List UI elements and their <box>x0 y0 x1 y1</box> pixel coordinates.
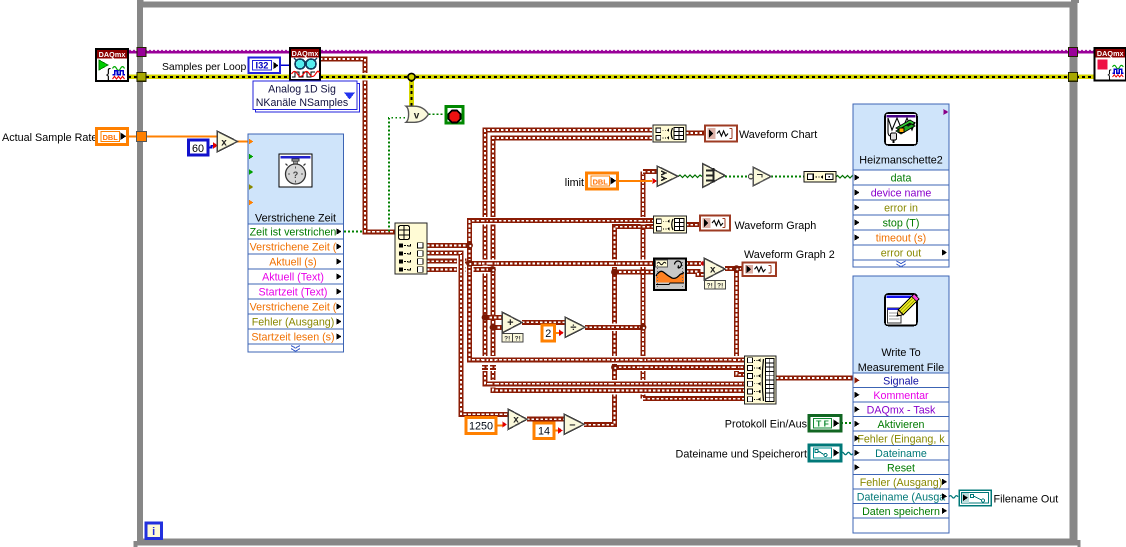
constant: 2 <box>542 325 555 341</box>
iteration terminal i <box>146 523 162 539</box>
tunnel: task (purple) right border <box>1069 48 1078 57</box>
svg-text:Analog 1D Sig: Analog 1D Sig <box>268 84 336 96</box>
wire: 14 to subtract (orange) <box>554 430 559 432</box>
compare badge under multiply-wg2 <box>705 281 726 290</box>
svg-text:Protokoll Ein/Aus: Protokoll Ein/Aus <box>725 419 808 431</box>
not gate <box>748 167 771 186</box>
constant: 60 <box>189 140 209 155</box>
divide node <box>565 317 585 338</box>
split signals node <box>395 223 427 274</box>
wire: out1 branch up to convert node2 <box>470 221 655 246</box>
control: I32 constant <box>249 58 281 74</box>
svg-text:x: x <box>513 415 519 426</box>
wire: split out3 <box>427 259 467 264</box>
svg-text:T F: T F <box>816 419 829 429</box>
svg-text:NKanäle NSamples: NKanäle NSamples <box>256 97 348 109</box>
wire: Actual Sample Rate (orange DBL) <box>128 136 217 138</box>
svg-text:Reset: Reset <box>887 462 915 474</box>
wire: multiply out to WG2 indicator <box>725 266 743 271</box>
svg-text:Signale: Signale <box>883 375 919 387</box>
express VI: Write To Measurement File <box>853 276 949 533</box>
svg-text:stop (T): stop (T) <box>883 218 920 230</box>
svg-text:data: data <box>891 173 912 185</box>
svg-text:Aktuell (Text): Aktuell (Text) <box>262 272 324 284</box>
multiply-wg2 node <box>704 258 725 280</box>
svg-text:error in: error in <box>884 203 918 215</box>
wire: 60 to multiply (blue) <box>208 146 214 148</box>
svg-text:Verstrichene Zeit (: Verstrichene Zeit ( <box>250 242 337 254</box>
coercion dot multiply in1 <box>701 261 705 265</box>
svg-text:Kommentar: Kommentar <box>873 390 929 402</box>
svg-text:DAQmx: DAQmx <box>99 50 126 59</box>
wire: greater out to and-array-elements (boolean array zigzag) <box>678 175 702 178</box>
svg-text:DBL: DBL <box>593 177 609 186</box>
wire: path control to Dateiname (teal squiggle) <box>841 452 853 454</box>
wire: DAQmx task (purple) top <box>128 50 1096 52</box>
svg-text:Write To: Write To <box>881 347 920 359</box>
express VI: Verstrichene Zeit <box>248 134 344 352</box>
indicator: Filename Out <box>959 490 1058 506</box>
compare badge under add <box>502 334 523 343</box>
svg-text:Measurement File: Measurement File <box>858 362 944 374</box>
wire: limit to greater in2 (orange) <box>617 180 652 182</box>
tunnel: actual sample rate (orange) left border <box>137 132 147 142</box>
svg-text:Filename Out: Filename Out <box>994 494 1059 506</box>
svg-text:x: x <box>221 138 227 149</box>
svg-text:DAQmx - Task: DAQmx - Task <box>867 404 936 416</box>
wire junction dots <box>466 242 740 371</box>
add node <box>502 312 522 333</box>
wire: branch to gray express node <box>615 270 655 275</box>
wire: stub to add input1 <box>485 315 502 320</box>
indicator: Waveform Graph 2 <box>743 263 777 277</box>
wire: gray node out to multiply in2 <box>686 272 704 275</box>
wire: branch to merge input2 <box>615 365 745 370</box>
wire: to greater input1 <box>643 169 657 174</box>
wire: divide output riser <box>641 172 646 399</box>
control: Protokoll Ein/Aus (TF) <box>725 416 841 432</box>
svg-text:Verstrichene Zeit: Verstrichene Zeit <box>255 213 336 225</box>
indicator: Waveform Chart <box>705 126 737 142</box>
svg-text:Aktivieren: Aktivieren <box>878 419 925 431</box>
tunnel: task out (purple) left border <box>137 48 146 57</box>
wire: add output to divide <box>522 320 565 325</box>
multiply-1250 node <box>508 409 527 430</box>
wire: I32 to DAQmx read (blue) <box>280 64 290 66</box>
svg-text:Fehler (Ausgang): Fehler (Ausgang) <box>860 477 943 489</box>
svg-text:I32: I32 <box>256 61 269 71</box>
svg-text:60: 60 <box>192 143 204 155</box>
wire: bool-to-01 to Heizmanschette data (green zigzag) <box>836 176 854 179</box>
wire: out1 branch down <box>467 245 472 263</box>
svg-text:?!: ?! <box>717 282 723 289</box>
greater-or-equal node <box>657 166 678 187</box>
svg-text:Startzeit (Text): Startzeit (Text) <box>259 287 328 299</box>
multiply node (rate x 60) <box>217 131 238 152</box>
wire: to merge input6 <box>643 396 745 401</box>
express VI rows: Write To Measurement File <box>853 373 949 533</box>
DAQmx Read icon <box>290 48 320 80</box>
tunnel: error right border <box>1069 72 1078 81</box>
wire: merge output to Signale <box>776 376 853 381</box>
svg-text:x: x <box>710 264 716 275</box>
DAQmx Clear Task icon <box>1095 48 1126 81</box>
wire: split out2 to multiply-1250 <box>427 253 508 414</box>
wire: boolean Zeit ist verstrichen to OR <box>344 118 406 232</box>
svg-text:–: – <box>569 419 575 431</box>
wire: 1250 to multiply (orange) <box>496 425 503 427</box>
red coercion arrows <box>213 142 657 433</box>
svg-text:Startzeit lesen (s): Startzeit lesen (s) <box>251 332 334 344</box>
svg-text:Actual Sample Rate: Actual Sample Rate <box>2 132 97 144</box>
indicator: Waveform Graph <box>700 216 730 231</box>
DAQmx Start Task icon <box>96 49 128 83</box>
wire: 2 to divide (orange) <box>554 332 560 334</box>
svg-text:÷: ÷ <box>570 322 576 334</box>
svg-text:?: ? <box>293 170 299 180</box>
wire crossing gaps <box>362 73 740 394</box>
svg-text:Fehler (Eingang, k: Fehler (Eingang, k <box>857 433 945 445</box>
wire: subtract output riser to convert node2 in2 <box>584 227 654 425</box>
wire: OR output to stop terminal <box>429 113 447 115</box>
svg-text:v: v <box>414 111 420 122</box>
svg-text:Aktuell (s): Aktuell (s) <box>269 257 317 269</box>
constant: 1250 <box>466 418 496 434</box>
wire: signal B: convert-node1 in2 / merge input5 <box>493 138 745 391</box>
boolean to (0,1) node <box>804 172 836 183</box>
svg-text:DBL: DBL <box>103 133 119 142</box>
subtract node <box>564 414 584 435</box>
svg-text:{: { <box>106 67 111 83</box>
svg-text:Dateiname und Speicherort: Dateiname und Speicherort <box>676 449 807 461</box>
svg-text:Verstrichene Zeit (: Verstrichene Zeit ( <box>250 302 337 314</box>
wire: Protokoll TF to Aktivieren <box>841 422 853 424</box>
wire: not gate to bool-to-01 <box>771 176 804 178</box>
gray signal express node <box>654 259 686 291</box>
and array elements node <box>703 164 726 188</box>
svg-text:Samples per Loop: Samples per Loop <box>162 62 247 73</box>
stop terminal <box>446 107 463 124</box>
svg-text:limit: limit <box>565 177 584 189</box>
junction: error wire branch <box>408 73 415 80</box>
svg-text:DAQmx: DAQmx <box>1097 49 1124 58</box>
express VI rows: Verstrichene Zeit outputs <box>248 224 344 352</box>
svg-text:+: + <box>507 317 513 329</box>
wire: convert node1 out to chart <box>686 131 705 136</box>
wire: branch to merge input3 <box>737 269 745 375</box>
svg-text:Waveform Graph: Waveform Graph <box>735 220 817 232</box>
svg-text:2: 2 <box>545 328 551 340</box>
svg-text:Waveform Graph 2: Waveform Graph 2 <box>744 249 835 261</box>
wire: signal A: convert-node1 in1 / merge input4 <box>485 130 745 384</box>
svg-text:Heizmanschette2: Heizmanschette2 <box>859 155 942 167</box>
wire: and-array-elements out to not gate <box>725 176 748 178</box>
OR gate <box>406 106 429 122</box>
wire: multiply-1250 out to subtract <box>527 417 564 422</box>
svg-text:Fehler (Ausgang): Fehler (Ausgang) <box>252 317 335 329</box>
control: limit DBL <box>587 173 618 189</box>
tunnel: error left border <box>137 72 146 81</box>
svg-text:1250: 1250 <box>469 421 493 433</box>
wire: error cluster (yellow/black) <box>128 77 1096 106</box>
wire: split out1 <box>427 243 470 248</box>
constant: 14 <box>534 423 554 439</box>
svg-text:{: { <box>1108 67 1112 81</box>
wire: convert node2 out to graph <box>686 222 702 227</box>
merge signals node (6 inputs) <box>745 356 777 404</box>
polymorphic VI selector: Analog 1D Sig NKanäle NSamples <box>253 81 360 112</box>
wire: multiply out to elapsed-time VI (orange) <box>238 141 249 143</box>
wire: divide output <box>585 325 643 330</box>
svg-text:Zeit ist verstrichen: Zeit ist verstrichen <box>250 227 337 239</box>
wire: Dateiname Ausgang to Filename Out <box>949 496 958 498</box>
subVI: Heizmanschette2 <box>853 104 949 267</box>
convert to dynamic data node 1 <box>653 125 686 142</box>
svg-text:?!: ?! <box>504 335 510 342</box>
svg-text:Dateiname (Ausga: Dateiname (Ausga <box>857 491 946 503</box>
svg-text:DAQmx: DAQmx <box>292 49 319 58</box>
svg-text:i: i <box>152 526 155 538</box>
wire: DAQmx read data to split node <box>320 59 395 232</box>
wire: split out4 <box>427 267 493 272</box>
svg-text:14: 14 <box>538 426 550 438</box>
svg-text:Dateiname: Dateiname <box>875 448 927 460</box>
control: Dateiname und Speicherort (path) <box>676 445 841 461</box>
svg-text:Waveform Chart: Waveform Chart <box>739 129 817 141</box>
subVI rows: Heizmanschette2 <box>853 170 949 267</box>
wire: stub to add input2 <box>493 325 502 330</box>
svg-text:device name: device name <box>871 188 932 200</box>
svg-text:timeout (s): timeout (s) <box>876 233 926 245</box>
control: Actual Sample Rate DBL <box>2 129 128 145</box>
wire: branch to merge input1 <box>470 263 745 359</box>
svg-text:Daten speichern: Daten speichern <box>862 506 940 518</box>
wire: long wire to multiply input1 <box>470 261 702 266</box>
convert to dynamic data node 2 <box>654 216 687 233</box>
svg-text:?!: ?! <box>515 335 521 342</box>
svg-text:?!: ?! <box>707 282 713 289</box>
svg-text:error out: error out <box>881 248 921 260</box>
